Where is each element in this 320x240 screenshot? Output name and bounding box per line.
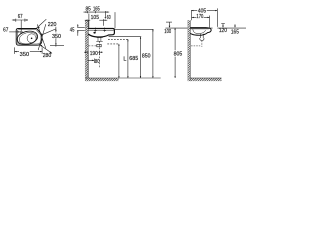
extension lines to vertical dims <box>107 29 153 78</box>
dim 170 <box>192 16 210 28</box>
wall hatched side view <box>188 20 191 81</box>
svg-text:190: 190 <box>90 51 98 57</box>
dim 220: leader <box>36 19 46 28</box>
dim 100 <box>166 22 172 28</box>
dim 280: diagonal dim line with arrows <box>40 45 52 54</box>
dim 80 <box>88 59 94 64</box>
svg-text:170: 170 <box>196 14 203 20</box>
basin outline plan <box>16 29 42 46</box>
tap hole cross 2 <box>104 29 106 32</box>
dim 165 <box>234 24 236 28</box>
drain pipes below basin <box>96 38 102 47</box>
floor hatched front view <box>85 78 118 81</box>
dim 120 <box>221 24 225 28</box>
svg-text:80: 80 <box>95 59 100 65</box>
basin side profile <box>190 28 211 36</box>
leader line B (from 220) <box>38 24 46 50</box>
wall hatched front view <box>85 20 88 81</box>
water supply line <box>166 27 213 29</box>
bowl outer plan <box>16 29 39 46</box>
dim line A <box>118 44 120 78</box>
basin front profile <box>88 29 114 38</box>
dim 67 left <box>9 31 20 33</box>
svg-text:220: 220 <box>48 22 57 28</box>
drain axis dashed <box>99 42 101 69</box>
dim 45 <box>77 24 85 36</box>
svg-text:165: 165 <box>93 6 100 12</box>
dim 405 <box>191 8 217 27</box>
dim line 685 <box>140 37 142 78</box>
dim line L <box>127 39 129 78</box>
bowl inner plan <box>18 31 38 46</box>
tap hole cross 1 <box>94 29 96 32</box>
dim 67 top: line <box>12 19 28 32</box>
floor line extending right <box>119 77 161 79</box>
dim 350 right: diagonal ext + vertical dim line <box>42 27 64 47</box>
tap hole plan <box>20 31 22 33</box>
dashed drain to wall <box>89 45 98 47</box>
svg-text:67: 67 <box>18 14 23 20</box>
svg-text:85: 85 <box>86 6 91 12</box>
side drain <box>200 34 204 41</box>
overflow hole front <box>93 32 95 34</box>
svg-text:45: 45 <box>70 27 75 33</box>
drain circle plan <box>27 34 36 43</box>
svg-text:60: 60 <box>107 15 111 21</box>
svg-text:350: 350 <box>52 34 61 40</box>
basin inner rim plan <box>18 30 42 44</box>
svg-text:L: L <box>123 57 126 63</box>
svg-text:165: 165 <box>231 30 239 36</box>
svg-text:805: 805 <box>174 52 183 58</box>
dim 105 row <box>85 19 107 26</box>
leader line A (to 280) <box>37 24 46 48</box>
svg-text:350: 350 <box>20 52 29 58</box>
svg-text:67: 67 <box>3 28 8 34</box>
svg-text:850: 850 <box>142 54 151 60</box>
floor hatched side view <box>190 78 221 81</box>
svg-text:120: 120 <box>219 28 227 34</box>
svg-text:100: 100 <box>164 29 171 35</box>
svg-text:280: 280 <box>43 53 52 59</box>
dim line 850 <box>152 29 154 78</box>
dim 350 bottom <box>15 47 43 54</box>
svg-text:105: 105 <box>91 15 99 21</box>
dims 85 165 top row <box>84 11 116 28</box>
dim 805 <box>174 28 175 78</box>
dim 190 <box>84 51 103 78</box>
svg-text:685: 685 <box>129 56 138 62</box>
